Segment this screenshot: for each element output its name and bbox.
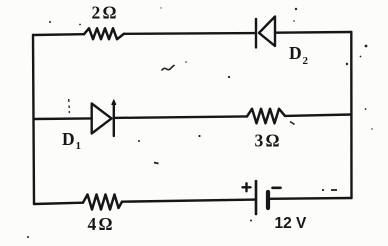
label 2Ω	[92, 3, 117, 23]
svg-text:Ω: Ω	[266, 131, 280, 151]
wire left vertical	[33, 35, 34, 204]
label D2	[289, 43, 309, 67]
svg-text:4: 4	[88, 214, 97, 234]
label 3Ω	[255, 131, 280, 151]
svg-text:2: 2	[303, 55, 309, 67]
svg-text:3: 3	[255, 131, 264, 151]
wire bottom-right segment	[268, 197, 352, 200]
wire right vertical	[350, 32, 353, 198]
label D1	[62, 129, 81, 152]
wire middle-left segment	[34, 117, 92, 120]
scan noise dotted mark left of D1	[68, 99, 71, 113]
resistor 4Ω	[83, 195, 122, 210]
wire middle-right segment	[285, 115, 352, 116]
diode D1	[92, 100, 116, 136]
svg-text:D: D	[62, 129, 75, 149]
wire top-left segment	[33, 33, 84, 36]
wire top-middle segment	[124, 32, 256, 35]
scan noise tick below 3Ω lead	[290, 122, 295, 125]
label 12 V	[275, 215, 308, 232]
svg-text:Ω: Ω	[99, 214, 113, 234]
svg-text:Ω: Ω	[103, 3, 117, 23]
diode D2	[256, 17, 275, 48]
wire top-right segment	[275, 31, 351, 34]
svg-text:D: D	[289, 43, 302, 63]
scan noise dash near bottom-right corner	[331, 189, 337, 191]
scan noise dash left-center	[154, 163, 159, 164]
scan noise squiggle center	[162, 65, 175, 71]
svg-text:2: 2	[92, 3, 101, 23]
svg-text:12 V: 12 V	[275, 215, 308, 232]
wire middle-center segment	[114, 116, 247, 118]
svg-text:1: 1	[76, 140, 82, 152]
wire bottom-left segment	[34, 203, 83, 204]
resistor 3Ω	[247, 109, 285, 124]
resistor 2Ω	[84, 28, 124, 39]
battery 12 V	[243, 181, 281, 214]
label 4Ω	[88, 214, 113, 234]
wire bottom-middle segment	[122, 200, 256, 202]
